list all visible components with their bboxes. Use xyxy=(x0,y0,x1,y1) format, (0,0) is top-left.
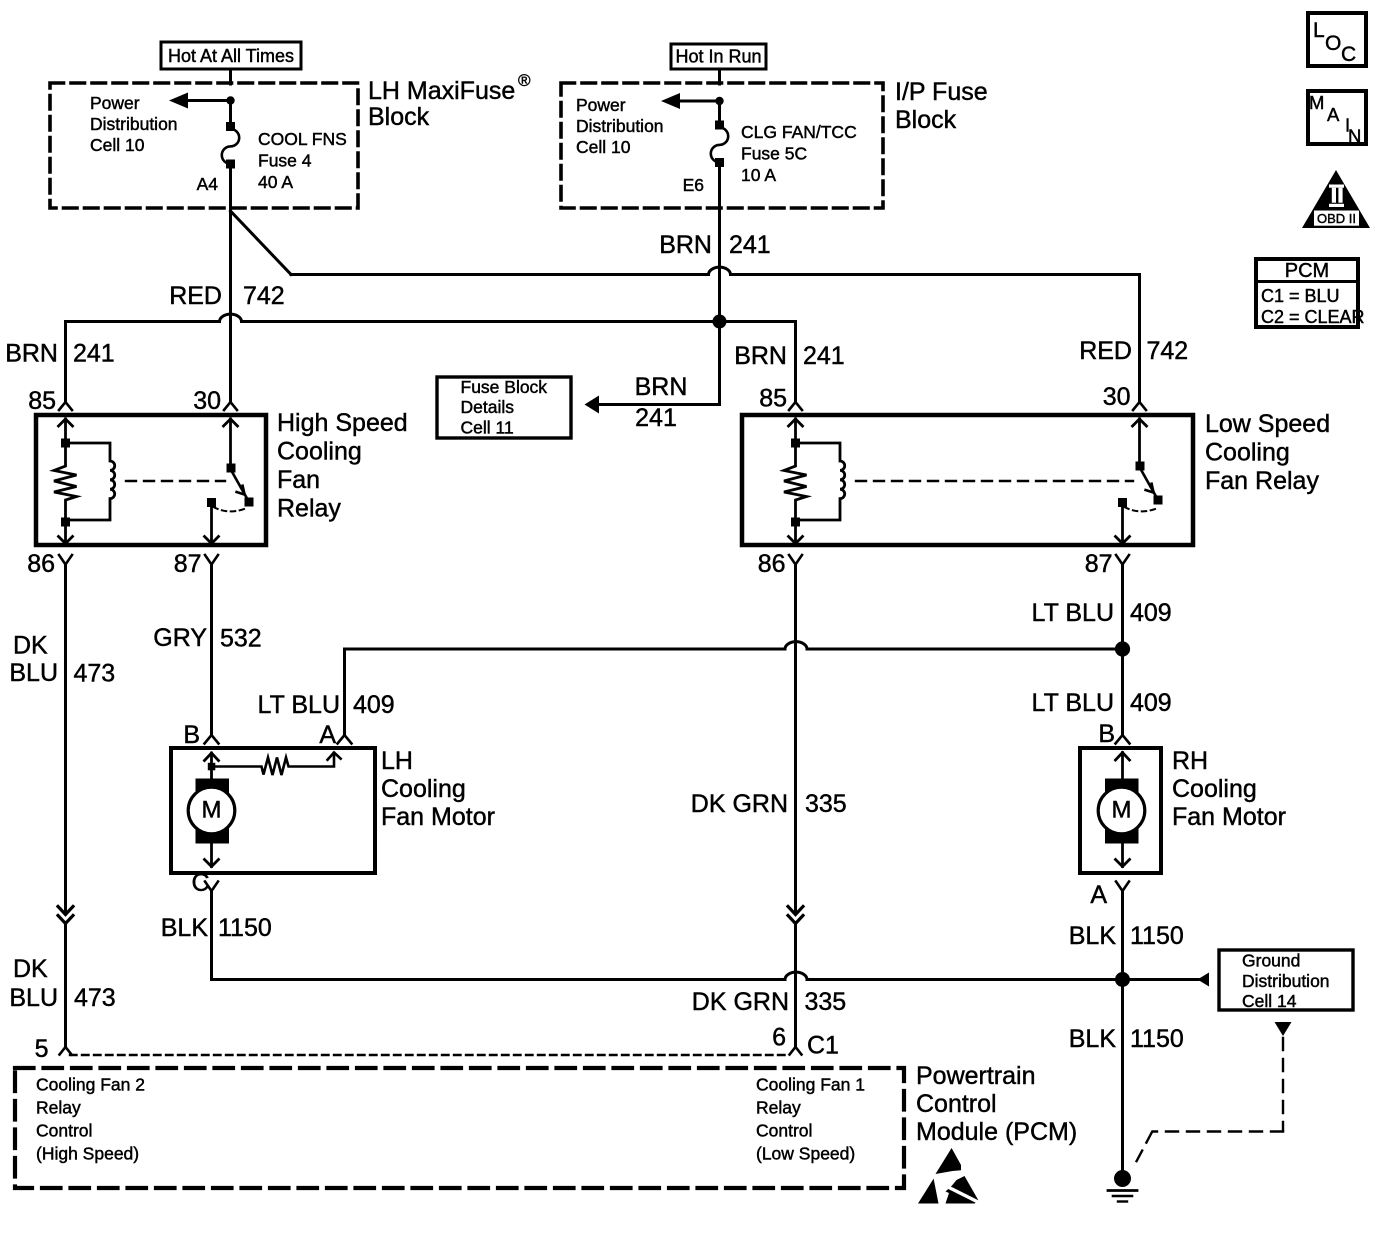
motor M1 return arrow down xyxy=(205,843,219,867)
svg-text:Distribution: Distribution xyxy=(576,116,664,136)
svg-text:85: 85 xyxy=(28,387,56,415)
relay K1 stationary contact terminal xyxy=(207,498,216,507)
relay K1 dashed travel arc xyxy=(214,507,246,511)
svg-text:241: 241 xyxy=(803,342,845,370)
relay K1 coil branch arrow down xyxy=(59,526,73,544)
relay K2 switch arrow up xyxy=(1133,419,1147,463)
svg-text:L: L xyxy=(1313,19,1325,42)
value label CLG FAN/TCC Fuse 5C 10 A xyxy=(741,122,857,185)
PCM connector legend box xyxy=(1256,259,1365,327)
relay K1 coil top terminal xyxy=(61,439,70,448)
svg-text:Relay: Relay xyxy=(277,495,341,523)
svg-text:®: ® xyxy=(518,71,531,90)
label LH MaxiFuse (R) Block xyxy=(368,71,531,131)
svg-text:Ground: Ground xyxy=(1242,951,1300,971)
label DK GRN 335 (lower) xyxy=(692,988,846,1016)
motor M2 RH Cooling Fan Motor box xyxy=(1080,748,1161,873)
svg-text:Cell 10: Cell 10 xyxy=(90,135,145,155)
motor M1 LH Cooling Fan Motor box xyxy=(171,748,375,873)
relay K2 dashed travel arc xyxy=(1125,507,1157,511)
motor M1 internal resistor to pin A xyxy=(216,753,341,776)
label LT BLU 409 (upper right) xyxy=(1032,599,1172,627)
label DK GRN 335 (upper) xyxy=(691,790,847,818)
svg-text:Cell 11: Cell 11 xyxy=(461,418,514,438)
svg-text:PCM: PCM xyxy=(1285,260,1329,282)
svg-text:473: 473 xyxy=(74,660,116,688)
svg-text:335: 335 xyxy=(805,790,847,818)
junction dot BLK splice xyxy=(1115,972,1130,987)
svg-text:Fuse Block: Fuse Block xyxy=(461,377,548,397)
svg-text:30: 30 xyxy=(193,387,221,415)
PCM pin 5 connector chevron xyxy=(60,1047,72,1055)
svg-text:RED: RED xyxy=(1079,337,1132,365)
svg-text:B: B xyxy=(1098,720,1115,748)
svg-text:Cooling: Cooling xyxy=(277,438,362,466)
wire continuation double chevron (DK BLU) xyxy=(58,907,73,924)
svg-text:Relay: Relay xyxy=(756,1098,801,1118)
pin 86 connector chevron xyxy=(59,555,72,565)
svg-text:241: 241 xyxy=(73,340,115,368)
OBD II symbol xyxy=(1302,170,1370,228)
svg-text:LT BLU: LT BLU xyxy=(1032,599,1114,627)
svg-text:5: 5 xyxy=(35,1035,49,1063)
relay K2 switch arm end terminal xyxy=(1154,496,1163,505)
svg-text:6: 6 xyxy=(772,1024,786,1052)
label LT BLU 409 (at LH motor) xyxy=(258,691,395,719)
motor M2 symbol xyxy=(1098,779,1145,844)
wire BLK 1150 from RH motor pin A down to ground xyxy=(1121,891,1124,1172)
arrow to Power Distribution (right) xyxy=(661,93,720,109)
svg-text:Fuse 5C: Fuse 5C xyxy=(741,144,807,164)
junction dot at LH fuse feed xyxy=(226,96,234,104)
relay K2 resistor xyxy=(784,448,807,518)
label RED 742 (left) xyxy=(169,282,285,310)
svg-text:CLG FAN/TCC: CLG FAN/TCC xyxy=(741,122,857,142)
wire xyxy=(229,101,232,127)
wire BRN 241 down to left relay pin 85 xyxy=(64,322,67,403)
fuse CLG FAN/TCC Fuse 5C 10A xyxy=(711,121,728,168)
wire LT BLU 409 from junction to LH motor pin A with hop over DK GRN xyxy=(345,642,1123,735)
svg-text:DK: DK xyxy=(13,632,48,660)
svg-text:241: 241 xyxy=(729,231,771,259)
svg-text:OBD II: OBD II xyxy=(1317,211,1356,226)
junction dot LT BLU splice xyxy=(1115,641,1130,656)
relay K2 stationary contact terminal xyxy=(1118,498,1127,507)
svg-text:BLU: BLU xyxy=(9,659,58,687)
svg-text:DK GRN: DK GRN xyxy=(691,790,788,818)
svg-text:Fan Motor: Fan Motor xyxy=(381,803,495,831)
motor M1 feed arrow up xyxy=(205,753,219,779)
arrow from Ground Distribution xyxy=(1198,973,1210,987)
svg-text:409: 409 xyxy=(353,691,395,719)
svg-text:532: 532 xyxy=(220,625,262,653)
svg-text:86: 86 xyxy=(758,550,786,578)
svg-text:BLK: BLK xyxy=(161,914,209,942)
MAIN legend box xyxy=(1308,91,1366,147)
svg-text:C1 = BLU: C1 = BLU xyxy=(1261,286,1340,306)
svg-text:1150: 1150 xyxy=(218,914,272,942)
svg-text:409: 409 xyxy=(1130,599,1172,627)
svg-text:1150: 1150 xyxy=(1130,1025,1184,1053)
svg-text:Power: Power xyxy=(90,93,140,113)
svg-text:Relay: Relay xyxy=(36,1098,81,1118)
relay K1 High Speed Cooling Fan Relay box xyxy=(36,415,266,545)
svg-text:(High Speed): (High Speed) xyxy=(36,1144,139,1164)
label BRN 241 (above junction) xyxy=(659,231,771,259)
svg-text:A: A xyxy=(1327,104,1340,125)
pin 85 connector chevron xyxy=(789,402,802,410)
value label COOL FNS Fuse 4 40 A xyxy=(258,129,347,192)
svg-text:A: A xyxy=(319,721,336,749)
svg-text:87: 87 xyxy=(1085,550,1113,578)
label High Speed Cooling Fan Relay xyxy=(277,409,408,523)
svg-text:Distribution: Distribution xyxy=(90,114,178,134)
LOC legend box xyxy=(1308,13,1366,66)
svg-text:COOL FNS: COOL FNS xyxy=(258,129,347,149)
relay K1 switch pivot terminal xyxy=(227,464,236,473)
svg-text:Fan: Fan xyxy=(277,466,320,494)
svg-text:473: 473 xyxy=(74,984,116,1012)
svg-text:1150: 1150 xyxy=(1130,922,1184,950)
label LH Cooling Fan Motor xyxy=(381,747,495,831)
ESD symbol white slash xyxy=(949,1188,977,1202)
pin 30 connector chevron xyxy=(224,402,237,410)
svg-text:B: B xyxy=(183,721,200,749)
svg-text:LT BLU: LT BLU xyxy=(1032,689,1114,717)
label GRY 532 xyxy=(153,624,261,653)
relay K2 switch arm with arrowhead xyxy=(1140,468,1158,500)
svg-text:GRY: GRY xyxy=(153,624,207,652)
LH MaxiFuse Block dashed outline xyxy=(50,83,358,208)
pin 87 connector chevron xyxy=(1116,555,1129,565)
svg-text:409: 409 xyxy=(1130,689,1172,717)
svg-text:Cooling: Cooling xyxy=(381,775,466,803)
wire BRN 241 horizontal left run with hop over RED wire xyxy=(66,314,720,321)
svg-text:Fan Motor: Fan Motor xyxy=(1172,803,1286,831)
svg-text:30: 30 xyxy=(1103,383,1131,411)
svg-text:85: 85 xyxy=(759,385,787,413)
relay K2 coil branch arrow down xyxy=(789,526,803,544)
relay K1 coil loop xyxy=(66,443,115,520)
svg-text:BRN: BRN xyxy=(659,231,712,259)
wire from Hot At All Times to LH MaxiFuse block xyxy=(229,69,232,84)
svg-text:241: 241 xyxy=(635,404,677,432)
wire BLK 1150 from LH motor pin C down and right with hop over DK GRN xyxy=(212,891,1123,980)
motor M2 return arrow down xyxy=(1116,843,1130,867)
pin 86 connector chevron xyxy=(789,555,802,565)
dashed reference line from Ground Distribution to ground xyxy=(1134,1038,1283,1166)
I/P Fuse Block dashed outline xyxy=(561,83,883,208)
label Power Distribution Cell 10 (left) xyxy=(90,93,178,155)
svg-text:Control: Control xyxy=(916,1090,997,1118)
relay K1 dashed actuation link xyxy=(126,480,225,482)
fuse COOL FNS Fuse 4 40A xyxy=(222,122,239,169)
label Low Speed Cooling Fan Relay xyxy=(1205,410,1330,495)
svg-text:Cooling: Cooling xyxy=(1205,439,1290,467)
relay K2 switch pivot terminal xyxy=(1136,462,1145,471)
motor M1 symbol xyxy=(188,779,235,844)
label box "Hot In Run" xyxy=(671,44,766,69)
svg-text:Cell 14: Cell 14 xyxy=(1242,991,1297,1011)
pin A connector chevron xyxy=(1116,882,1129,892)
svg-text:Powertrain: Powertrain xyxy=(916,1062,1036,1090)
svg-text:DK GRN: DK GRN xyxy=(692,988,789,1016)
svg-text:Low Speed: Low Speed xyxy=(1205,410,1330,438)
wire from Hot In Run to I/P fuse block xyxy=(718,69,721,84)
relay K2 coil top terminal xyxy=(791,439,800,448)
svg-text:BLK: BLK xyxy=(1069,922,1117,950)
label BRN 241 (on arrow wire) xyxy=(635,373,688,432)
label DK BLU 473 (lower) xyxy=(9,955,115,1012)
svg-text:Power: Power xyxy=(576,95,626,115)
wire GRY 532 from left relay pin 87 to LH motor pin B xyxy=(210,564,213,735)
motor M1 terminal xyxy=(208,763,216,771)
svg-text:Fan Relay: Fan Relay xyxy=(1205,467,1319,495)
relay K1 switch arrow up xyxy=(224,419,238,465)
wire DK GRN 335 from right relay pin 86 down to PCM pin 6 xyxy=(794,565,797,915)
label BLK 1150 (upper right) xyxy=(1069,922,1184,950)
svg-text:BRN: BRN xyxy=(5,340,58,368)
wire DK BLU 473 from left relay pin 86 down to PCM pin 5 xyxy=(64,565,67,915)
svg-text:(Low Speed): (Low Speed) xyxy=(756,1144,855,1164)
wire RED 742 from fuse A4 down to left relay pin 30 xyxy=(229,164,232,403)
svg-text:Cell 10: Cell 10 xyxy=(576,137,631,157)
svg-text:A: A xyxy=(1090,881,1107,909)
label BLK 1150 (left) xyxy=(161,914,272,942)
svg-text:RED: RED xyxy=(169,282,222,310)
svg-text:40 A: 40 A xyxy=(258,172,293,192)
relay K1 coil bottom terminal xyxy=(61,518,70,527)
svg-text:Cooling Fan 1: Cooling Fan 1 xyxy=(756,1075,865,1095)
junction dot at I/P fuse feed xyxy=(715,97,723,105)
wire BRN 241 from fuse E6 down to junction xyxy=(718,164,721,322)
wire continuation double chevron (DK GRN) xyxy=(788,907,803,924)
PCM connector C1 dashed line xyxy=(70,1054,790,1056)
label DK BLU 473 (upper) xyxy=(9,632,115,688)
PCM module dashed box xyxy=(15,1068,904,1188)
relay K1 coil branch arrow up xyxy=(59,419,73,440)
svg-text:High Speed: High Speed xyxy=(277,409,408,437)
svg-text:BRN: BRN xyxy=(635,373,688,401)
svg-text:O: O xyxy=(1325,32,1341,55)
pin B connector chevron xyxy=(1116,735,1130,744)
motor M2 feed arrow up xyxy=(1116,753,1130,780)
svg-text:87: 87 xyxy=(174,550,202,578)
svg-text:742: 742 xyxy=(1147,337,1189,365)
svg-text:Block: Block xyxy=(895,106,957,134)
svg-text:E6: E6 xyxy=(683,175,704,195)
svg-text:M: M xyxy=(202,797,222,824)
svg-text:Cooling Fan 2: Cooling Fan 2 xyxy=(36,1075,145,1095)
wire BRN 241 right branch to right relay pin 85 xyxy=(720,322,796,403)
svg-text:Control: Control xyxy=(756,1121,812,1141)
relay K2 dashed actuation link xyxy=(856,480,1133,482)
svg-text:RH: RH xyxy=(1172,747,1208,775)
label LT BLU 409 (lower right) xyxy=(1032,689,1172,717)
relay K2 coil bottom terminal xyxy=(791,518,800,527)
svg-text:Control: Control xyxy=(36,1121,92,1141)
relay K2 Low Speed Cooling Fan Relay box xyxy=(742,415,1193,545)
pin 85 connector chevron xyxy=(59,402,72,410)
label RH Cooling Fan Motor xyxy=(1172,747,1286,831)
svg-text:BLU: BLU xyxy=(9,984,58,1012)
wire LT BLU 409 from right relay pin 87 down to RH motor pin B xyxy=(1121,564,1124,735)
svg-text:Details: Details xyxy=(461,397,515,417)
label RED 742 (right) xyxy=(1079,337,1188,365)
label Power Distribution Cell 10 (right) xyxy=(576,95,664,157)
svg-text:Module (PCM): Module (PCM) xyxy=(916,1118,1077,1146)
svg-text:10 A: 10 A xyxy=(741,165,776,185)
svg-text:C2 = CLEAR: C2 = CLEAR xyxy=(1261,307,1365,327)
arrow to Fuse Block Details xyxy=(585,396,600,414)
relay K1 contact wire and arrow down xyxy=(205,506,219,544)
Ground Distribution Cell 14 reference box xyxy=(1219,950,1353,1011)
wire BRN 241 down-left branch to fuse block details arrow xyxy=(600,322,720,405)
label BRN 241 (right branch) xyxy=(734,342,845,370)
pin C connector chevron xyxy=(205,882,218,892)
label Cooling Fan 2 Relay Control (High Speed) xyxy=(36,1075,145,1164)
svg-text:Hot At All Times: Hot At All Times xyxy=(168,46,294,66)
wire RED 742 diagonal branch xyxy=(231,211,292,275)
svg-text:Cooling: Cooling xyxy=(1172,775,1257,803)
svg-text:BRN: BRN xyxy=(734,342,787,370)
svg-text:C: C xyxy=(1341,43,1356,66)
svg-text:86: 86 xyxy=(27,550,55,578)
svg-text:M: M xyxy=(1112,797,1132,824)
svg-text:I/P Fuse: I/P Fuse xyxy=(895,78,988,106)
wire RED 742 horizontal run with hop over BRN wire xyxy=(291,267,1140,274)
svg-text:LH MaxiFuse: LH MaxiFuse xyxy=(368,77,515,105)
wire xyxy=(718,101,721,125)
label Powertrain Control Module (PCM) xyxy=(916,1062,1077,1146)
ground reference arrow (solid triangle down) xyxy=(1275,1022,1292,1036)
wire stub to Ground Distribution arrow xyxy=(1123,978,1199,981)
relay K1 resistor xyxy=(54,448,77,518)
svg-text:N: N xyxy=(1348,126,1361,147)
label I/P Fuse Block xyxy=(895,78,988,134)
svg-text:Distribution: Distribution xyxy=(1242,971,1330,991)
pin 30 connector chevron xyxy=(1133,402,1146,410)
svg-text:Hot In Run: Hot In Run xyxy=(675,47,761,67)
arrow to Power Distribution (left) xyxy=(169,93,231,109)
relay K2 coil branch arrow up xyxy=(789,419,803,440)
junction dot BRN splice xyxy=(713,315,727,329)
label box "Hot At All Times" xyxy=(161,42,301,69)
Fuse Block Details Cell 11 reference box xyxy=(437,377,571,438)
pin 87 connector chevron xyxy=(205,555,218,565)
svg-text:742: 742 xyxy=(243,282,285,310)
svg-text:LT BLU: LT BLU xyxy=(258,691,340,719)
PCM pin 6 connector chevron xyxy=(790,1047,802,1055)
svg-text:C1: C1 xyxy=(807,1032,839,1060)
svg-text:Fuse 4: Fuse 4 xyxy=(258,151,312,171)
ground G (terminal dot and ground strokes) xyxy=(1108,1170,1137,1202)
relay K1 switch arm with arrowhead xyxy=(231,470,249,502)
relay K1 switch arm end terminal xyxy=(245,498,254,507)
svg-text:BLK: BLK xyxy=(1069,1025,1117,1053)
wire RED 742 down to right relay pin 30 xyxy=(1138,275,1141,403)
svg-text:335: 335 xyxy=(805,988,847,1016)
svg-text:A4: A4 xyxy=(197,174,219,194)
ESD sensitive device symbol xyxy=(918,1148,979,1204)
svg-text:LH: LH xyxy=(381,747,413,775)
label BLK 1150 (lower right) xyxy=(1069,1025,1184,1053)
relay K2 contact wire and arrow down xyxy=(1116,506,1130,544)
label Cooling Fan 1 Relay Control (Low Speed) xyxy=(756,1075,865,1164)
svg-text:Block: Block xyxy=(368,103,430,131)
pin A connector chevron xyxy=(338,735,352,744)
pin B connector chevron xyxy=(205,735,219,744)
relay K2 coil loop xyxy=(796,443,845,520)
label BRN 241 (far left) xyxy=(5,340,115,368)
svg-text:DK: DK xyxy=(13,955,48,983)
svg-text:M: M xyxy=(1309,92,1324,113)
